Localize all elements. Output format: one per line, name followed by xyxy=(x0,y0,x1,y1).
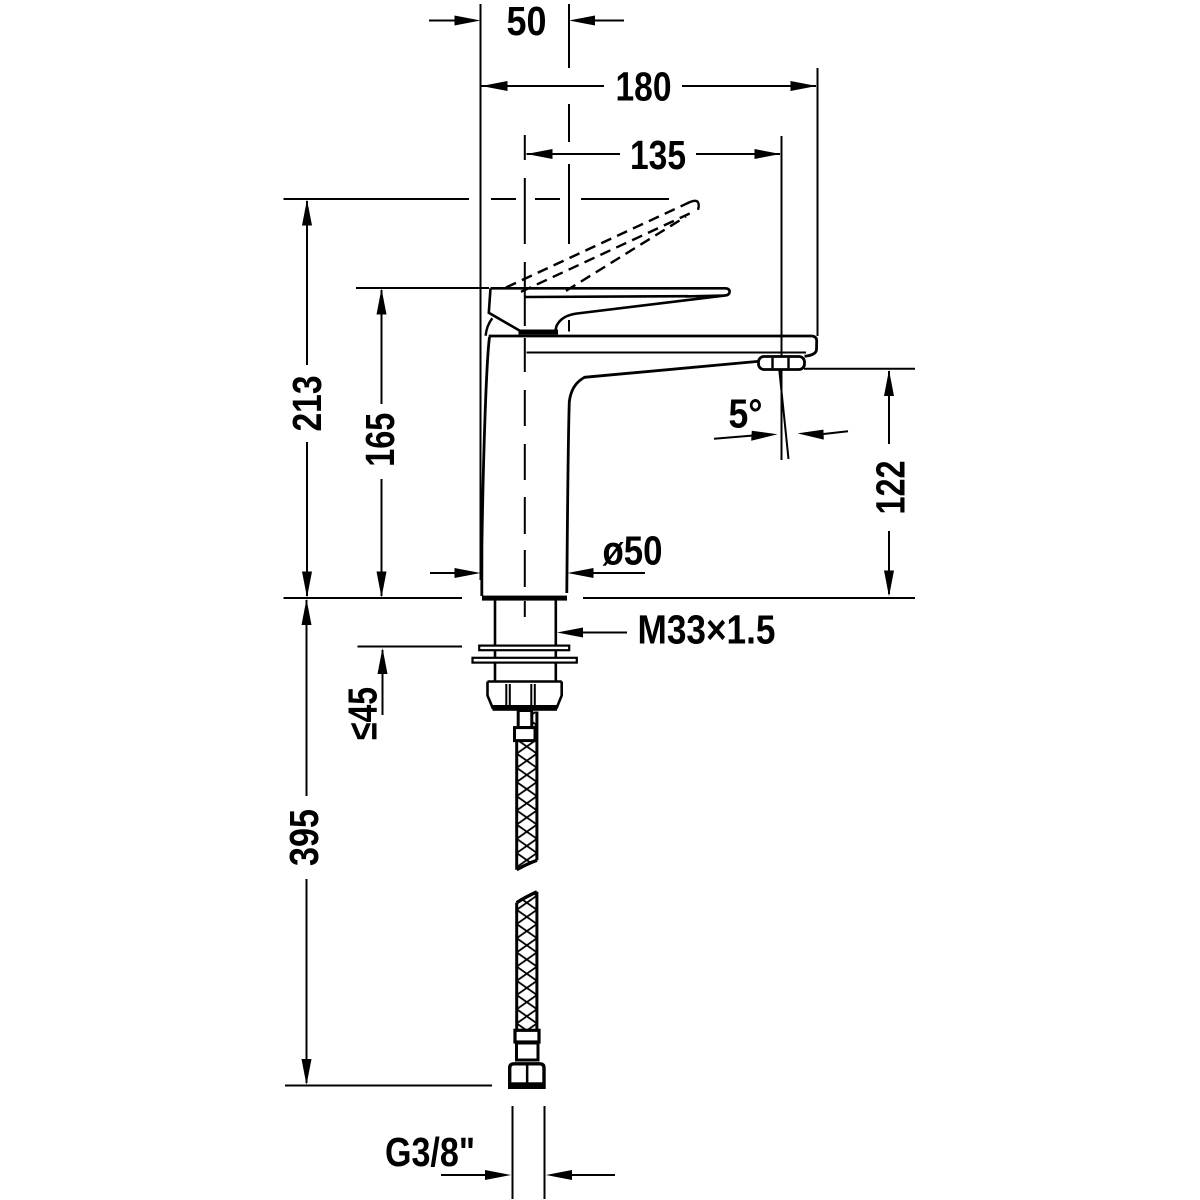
washer 2 xyxy=(473,658,577,663)
hose end tube xyxy=(517,1043,539,1060)
svg-text:135: 135 xyxy=(630,132,686,178)
svg-text:ø50: ø50 xyxy=(603,528,663,574)
dimension 5 degrees (spray angle) xyxy=(714,390,848,441)
aerator xyxy=(759,357,805,370)
flexible hose lower segment (braided) xyxy=(517,892,537,1031)
dimension 180 xyxy=(482,63,817,109)
extension line: mounting surface y=598 xyxy=(284,597,916,599)
svg-text:50: 50 xyxy=(507,0,547,44)
raised lever tip xyxy=(688,201,699,210)
dimension 165 (vertical) xyxy=(357,289,403,598)
hose top fitting xyxy=(515,728,536,741)
extension line: left reference x=480.5 (50/180/o50) xyxy=(480,4,482,580)
dimension o50 (body diameter) xyxy=(430,528,663,579)
handle lever (solid, rest position) xyxy=(489,288,730,331)
dimension G3/8 (supply connection) xyxy=(385,1106,615,1199)
svg-text:M33×1.5: M33×1.5 xyxy=(638,606,776,652)
svg-text:180: 180 xyxy=(616,63,672,109)
handle escutcheon left arc xyxy=(486,318,493,336)
svg-text:5°: 5° xyxy=(729,390,763,436)
dimension <=45 (vertical, arrow only) xyxy=(340,648,388,740)
handle base flange (thick bottom) xyxy=(519,330,559,335)
supply tube below nut xyxy=(518,711,532,728)
spout tip edge xyxy=(805,336,817,356)
center line: faucet vertical axis x=524.8 xyxy=(524,135,526,617)
mounting nut xyxy=(488,682,562,711)
faucet body outline (left edge + top) xyxy=(482,337,490,596)
svg-text:122: 122 xyxy=(868,461,914,515)
svg-text:165: 165 xyxy=(357,413,403,467)
dimension 122 (vertical) xyxy=(868,370,914,597)
svg-text:395: 395 xyxy=(281,809,327,866)
flexible hose upper segment (braided) xyxy=(517,712,537,870)
dimension 135 xyxy=(527,132,781,178)
threaded shank xyxy=(495,601,556,682)
hose end nut (G3/8) xyxy=(510,1064,544,1088)
extension line: body top level y=288 xyxy=(356,287,489,289)
extension line: spout outlet axis x=781.5 xyxy=(781,136,783,460)
dimension 213 (vertical) xyxy=(284,200,330,598)
extension line: 180 right x=817.5 xyxy=(817,68,819,336)
faucet body right edge and spout underside xyxy=(567,361,758,593)
extension line: spout outlet level y=368.75 xyxy=(804,368,915,370)
center line: handle pivot axis x=569 xyxy=(568,4,570,332)
dimension 50 (top) xyxy=(429,0,624,44)
handle lever raised (dashed alternate position) xyxy=(506,203,694,292)
svg-text:≤45: ≤45 xyxy=(340,687,386,740)
water stream line (5 deg tilt) xyxy=(779,369,788,459)
dimension M33x1.5 (thread) xyxy=(557,606,776,652)
extension line: handle raised tip level y=199 xyxy=(284,198,670,200)
extension line: washer level y=646.5 xyxy=(358,646,463,648)
extension line: hose end level y=1085.5 xyxy=(285,1085,492,1087)
spout top inner line xyxy=(527,352,807,354)
svg-text:G3/8": G3/8" xyxy=(385,1129,475,1175)
washer 1 xyxy=(479,646,569,651)
hose end fitting xyxy=(515,1030,539,1042)
svg-text:213: 213 xyxy=(284,376,330,432)
dimension 395 (vertical) xyxy=(281,599,327,1085)
body base (thick band on mounting surface) xyxy=(482,596,567,601)
